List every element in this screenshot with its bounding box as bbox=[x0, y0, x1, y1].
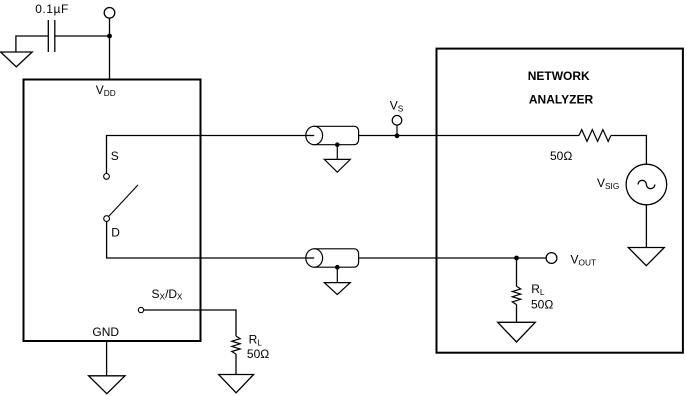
svg-text:S: S bbox=[111, 149, 119, 163]
wire VOUT node to RL bbox=[516, 258, 518, 286]
svg-text:D: D bbox=[111, 225, 120, 239]
wire source to ground bbox=[645, 205, 647, 248]
network analyzer box bbox=[437, 49, 683, 353]
wire RL to ground bbox=[516, 305, 518, 323]
junction coax upper shield bbox=[335, 142, 340, 147]
wire resistor to source bbox=[611, 136, 647, 165]
wire coax lower shield to ground bbox=[336, 267, 338, 282]
wire S branch bbox=[107, 136, 315, 174]
terminal SX/DX bbox=[138, 307, 143, 312]
wire VS terminal bbox=[396, 125, 398, 135]
svg-text:50Ω: 50Ω bbox=[247, 347, 269, 361]
svg-text:/D: /D bbox=[165, 287, 177, 301]
coax upper shield body bbox=[306, 126, 359, 144]
svg-text:ANALYZER: ANALYZER bbox=[529, 92, 594, 106]
pin label VDD bbox=[96, 83, 116, 98]
junction VOUT node bbox=[514, 256, 519, 261]
svg-text:50Ω: 50Ω bbox=[550, 149, 572, 163]
svg-text:OUT: OUT bbox=[579, 258, 597, 268]
resistor RL (SX/DX load) bbox=[232, 336, 240, 354]
wire cap left to ground bbox=[16, 36, 48, 52]
wire terminal to VDD pin bbox=[109, 18, 111, 79]
wire D branch bbox=[107, 222, 315, 259]
net label VOUT bbox=[571, 253, 597, 268]
switch blade bbox=[107, 185, 138, 219]
coax lower shield body bbox=[306, 249, 359, 267]
pin label SX/DX bbox=[152, 287, 183, 302]
wire into coax lower bbox=[306, 257, 314, 259]
ground analyzer RL bbox=[498, 322, 536, 342]
resistor 50ohm source bbox=[579, 130, 611, 142]
ground SX/DX load bbox=[219, 375, 254, 393]
svg-text:GND: GND bbox=[92, 325, 119, 339]
svg-text:V: V bbox=[571, 253, 579, 267]
ground bypass cap bbox=[1, 52, 33, 67]
wire coax upper to 50ohm resistor bbox=[359, 135, 579, 137]
ground coax lower bbox=[324, 283, 350, 295]
value label RL 50ohm (analyzer) bbox=[531, 282, 553, 311]
terminal VS bbox=[392, 116, 402, 126]
source VSIG circle bbox=[626, 164, 667, 205]
ground GND pin bbox=[89, 376, 125, 394]
terminal VDD supply bbox=[104, 8, 115, 19]
svg-text:DD: DD bbox=[104, 88, 116, 98]
svg-text:V: V bbox=[96, 83, 104, 97]
DUT box bbox=[24, 80, 201, 342]
value label RL 50ohm (left) bbox=[247, 333, 269, 362]
ground coax upper bbox=[324, 159, 350, 172]
wire coax upper shield to ground bbox=[336, 145, 338, 160]
terminal VOUT bbox=[546, 253, 557, 264]
capacitor C1 0.1uF plates bbox=[48, 20, 55, 52]
svg-text:X: X bbox=[177, 292, 183, 302]
label NETWORK ANALYZER bbox=[528, 69, 594, 107]
svg-text:L: L bbox=[257, 337, 262, 347]
wire cap right to junction bbox=[55, 35, 110, 37]
svg-text:S: S bbox=[152, 287, 160, 301]
svg-text:NETWORK: NETWORK bbox=[528, 69, 590, 83]
svg-text:R: R bbox=[249, 333, 258, 347]
svg-text:V: V bbox=[597, 176, 605, 190]
source VSIG sine bbox=[638, 180, 655, 188]
wire into coax upper bbox=[306, 135, 314, 137]
switch contact S bbox=[104, 174, 110, 180]
net label VS bbox=[390, 99, 404, 114]
junction VDD node bbox=[107, 34, 112, 39]
wire coax lower to VOUT node bbox=[359, 257, 546, 259]
ground source bbox=[628, 248, 664, 266]
svg-text:V: V bbox=[390, 99, 398, 113]
svg-text:50Ω: 50Ω bbox=[531, 297, 553, 311]
svg-text:SIG: SIG bbox=[605, 181, 619, 191]
junction VS node bbox=[395, 133, 400, 138]
junction coax lower shield bbox=[335, 265, 340, 270]
svg-text:S: S bbox=[398, 103, 404, 113]
label VSIG bbox=[597, 176, 619, 191]
wire GND pin bbox=[106, 341, 108, 376]
svg-text:R: R bbox=[531, 282, 540, 296]
switch contact D bbox=[104, 216, 110, 222]
resistor RL (analyzer input) bbox=[512, 286, 520, 304]
wire resistor to ground bbox=[235, 354, 237, 374]
wire SX/DX to load bbox=[144, 310, 236, 336]
svg-text:L: L bbox=[540, 287, 545, 297]
svg-text:0.1µF: 0.1µF bbox=[35, 2, 69, 16]
